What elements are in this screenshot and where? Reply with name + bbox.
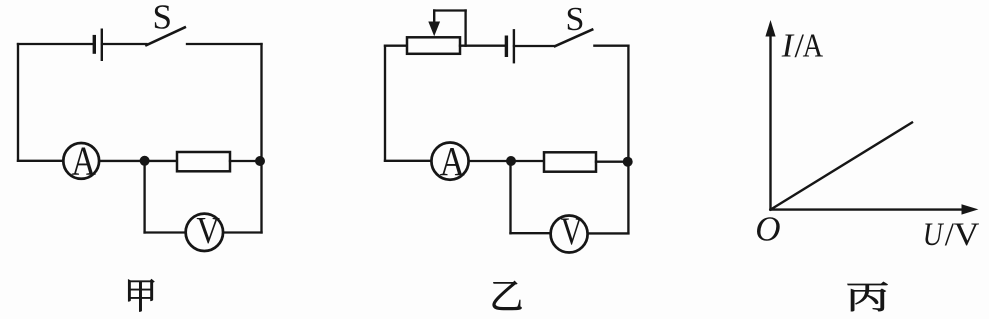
wire: ammeter to resistor: [100, 160, 177, 162]
label 丙: [848, 282, 888, 311]
svg-text:A: A: [71, 138, 96, 184]
svg-text:V: V: [954, 217, 980, 253]
label 乙: [493, 281, 522, 310]
U axis arrowhead: [962, 204, 979, 214]
node: left junction dot: [140, 156, 150, 166]
wire: wiper tap top: [434, 9, 465, 11]
wire: bottom left to ammeter: [18, 160, 62, 162]
wire: ammeter to resistor: [470, 160, 544, 162]
svg-text:A: A: [803, 27, 824, 64]
switch S blade: [146, 27, 184, 45]
wire: top left to battery: [18, 43, 94, 45]
ammeter A1: [63, 143, 99, 179]
resistor R1: [177, 152, 230, 171]
wire: bottom left to ammeter: [385, 160, 431, 162]
wire: switch to top-right corner: [594, 45, 628, 47]
rheostat wiper arrowhead: [428, 22, 440, 37]
wire: rheostat to battery: [460, 45, 506, 47]
node: left junction dot: [506, 156, 516, 166]
I-U line: [771, 123, 913, 210]
wire: resistor to right junction: [230, 160, 262, 162]
wire: voltmeter branch left vertical: [509, 161, 511, 233]
wire: voltmeter branch bottom right: [224, 231, 262, 233]
voltmeter V2: [551, 216, 588, 253]
wire: left vertical: [384, 46, 386, 161]
svg-text:U: U: [923, 217, 945, 253]
wire: voltmeter branch left vertical: [143, 161, 145, 233]
label 甲: [128, 279, 154, 311]
node: right junction dot: [255, 156, 265, 166]
wire: battery to switch: [514, 45, 555, 47]
resistor R3: [544, 152, 596, 171]
wire: right vertical: [627, 46, 629, 234]
svg-text:A: A: [440, 138, 465, 184]
svg-text:V: V: [196, 210, 220, 252]
wire: wiper tap right vertical: [464, 11, 466, 46]
battery B1 positive plate: [101, 30, 103, 60]
svg-text:V: V: [561, 210, 583, 253]
wire: left vertical: [17, 44, 19, 161]
svg-text:S: S: [152, 0, 171, 37]
node: right junction dot: [623, 157, 633, 167]
rheostat wiper arrow shaft: [433, 11, 435, 25]
wire: voltmeter branch bottom right: [589, 232, 628, 234]
I axis (vertical): [769, 32, 771, 210]
wire: right vertical: [260, 44, 262, 233]
U axis (horizontal): [771, 208, 967, 210]
svg-text:S: S: [566, 1, 585, 38]
wire: battery to switch: [102, 43, 146, 45]
battery B2 negative plate: [505, 37, 508, 55]
wire: top left to rheostat: [385, 45, 407, 47]
wire: resistor to right junction: [596, 161, 628, 163]
voltmeter V1: [186, 214, 223, 251]
rheostat R2 body: [407, 37, 460, 54]
wire: switch to top-right corner: [187, 43, 262, 45]
battery B1 negative plate: [93, 37, 96, 53]
wire: voltmeter branch bottom left: [145, 231, 185, 233]
svg-text:I: I: [781, 27, 795, 64]
ammeter A2: [431, 143, 468, 180]
I axis arrowhead: [765, 20, 775, 37]
svg-text:O: O: [755, 210, 780, 249]
battery B2 positive plate: [513, 30, 515, 62]
wire: voltmeter branch bottom left: [511, 232, 551, 234]
switch S blade: [555, 30, 592, 47]
